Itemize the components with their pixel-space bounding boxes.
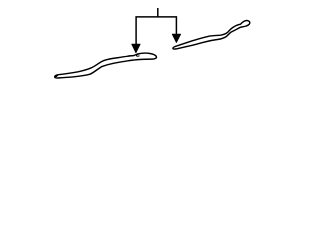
arrowhead left [132, 44, 140, 53]
moulding strip right (upper) [173, 21, 250, 50]
bracket [136, 17, 176, 45]
moulding strip left (lower) [55, 53, 157, 78]
arrowhead right [172, 34, 180, 42]
left tip knot of left strip [55, 75, 58, 77]
clip notch on left strip (small hook under left arrow) [136, 54, 139, 56]
label stem (leader line to part number above) [157, 8, 159, 17]
